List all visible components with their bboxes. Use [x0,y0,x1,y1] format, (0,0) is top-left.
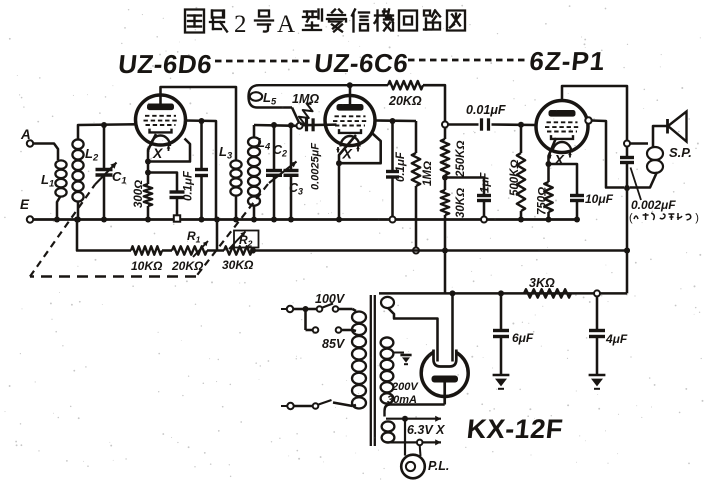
svg-text:250KΩ: 250KΩ [455,141,467,178]
svg-text:P.L.: P.L. [428,459,449,473]
svg-text:6μF: 6μF [512,331,534,345]
svg-text:4μF: 4μF [605,332,628,346]
svg-text:1MΩ: 1MΩ [292,92,319,106]
svg-text:1μF: 1μF [480,172,492,193]
svg-text:10μF: 10μF [585,192,614,206]
svg-text:0.1μF: 0.1μF [395,151,407,182]
svg-text:85V: 85V [322,337,346,351]
svg-text:3KΩ: 3KΩ [529,276,555,290]
svg-text:A: A [277,11,295,38]
svg-text:E: E [20,197,30,212]
svg-text:A: A [20,127,31,142]
svg-text:0.01μF: 0.01μF [466,103,506,117]
svg-text:100V: 100V [315,292,346,306]
svg-text:): ) [695,212,699,224]
svg-text:6.3V X: 6.3V X [407,423,445,437]
svg-text:UZ-6D6: UZ-6D6 [117,49,214,79]
svg-text:10KΩ: 10KΩ [131,259,163,273]
svg-text:2: 2 [234,11,247,38]
svg-text:0.002μF: 0.002μF [631,198,676,212]
svg-text:1MΩ: 1MΩ [422,161,434,186]
svg-text:X: X [342,146,354,162]
svg-text:UZ-6C6: UZ-6C6 [313,48,410,78]
svg-text:750Ω: 750Ω [537,187,549,215]
svg-text:0.0025μF: 0.0025μF [310,143,322,190]
svg-text:20KΩ: 20KΩ [388,94,422,108]
svg-text:500KΩ: 500KΩ [509,160,521,196]
svg-text:KX-12F: KX-12F [465,413,564,444]
svg-text:300Ω: 300Ω [133,180,145,208]
svg-text:6Z-P1: 6Z-P1 [528,46,607,76]
svg-text:X: X [152,145,164,161]
svg-text:200V: 200V [391,381,419,393]
svg-text:30KΩ: 30KΩ [222,258,254,272]
svg-text:30mA: 30mA [387,394,417,406]
svg-text:(: ( [629,212,633,224]
svg-text:S.P.: S.P. [669,145,692,160]
svg-text:30KΩ: 30KΩ [455,188,467,218]
svg-text:0.1μF: 0.1μF [183,170,195,201]
